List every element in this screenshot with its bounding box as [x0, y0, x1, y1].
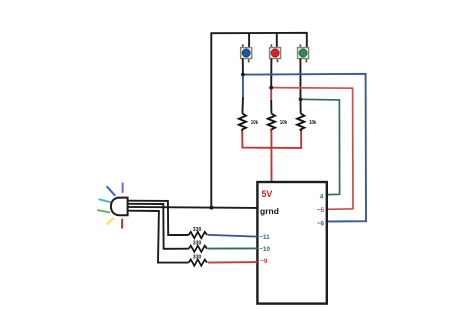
svg-text:330: 330 [193, 241, 202, 247]
svg-text:10k: 10k [280, 120, 288, 126]
svg-text:~9: ~9 [260, 258, 268, 265]
svg-text:~6: ~6 [317, 220, 325, 227]
svg-text:330: 330 [193, 255, 202, 261]
svg-text:10k: 10k [309, 120, 317, 126]
svg-text:10k: 10k [251, 120, 259, 126]
svg-text:4: 4 [320, 193, 324, 200]
svg-text:~10: ~10 [259, 246, 270, 253]
svg-text:5V: 5V [262, 189, 273, 199]
svg-text:~11: ~11 [259, 234, 270, 241]
svg-text:330: 330 [193, 227, 202, 233]
svg-text:~5: ~5 [317, 207, 325, 214]
svg-text:grnd: grnd [260, 206, 279, 216]
